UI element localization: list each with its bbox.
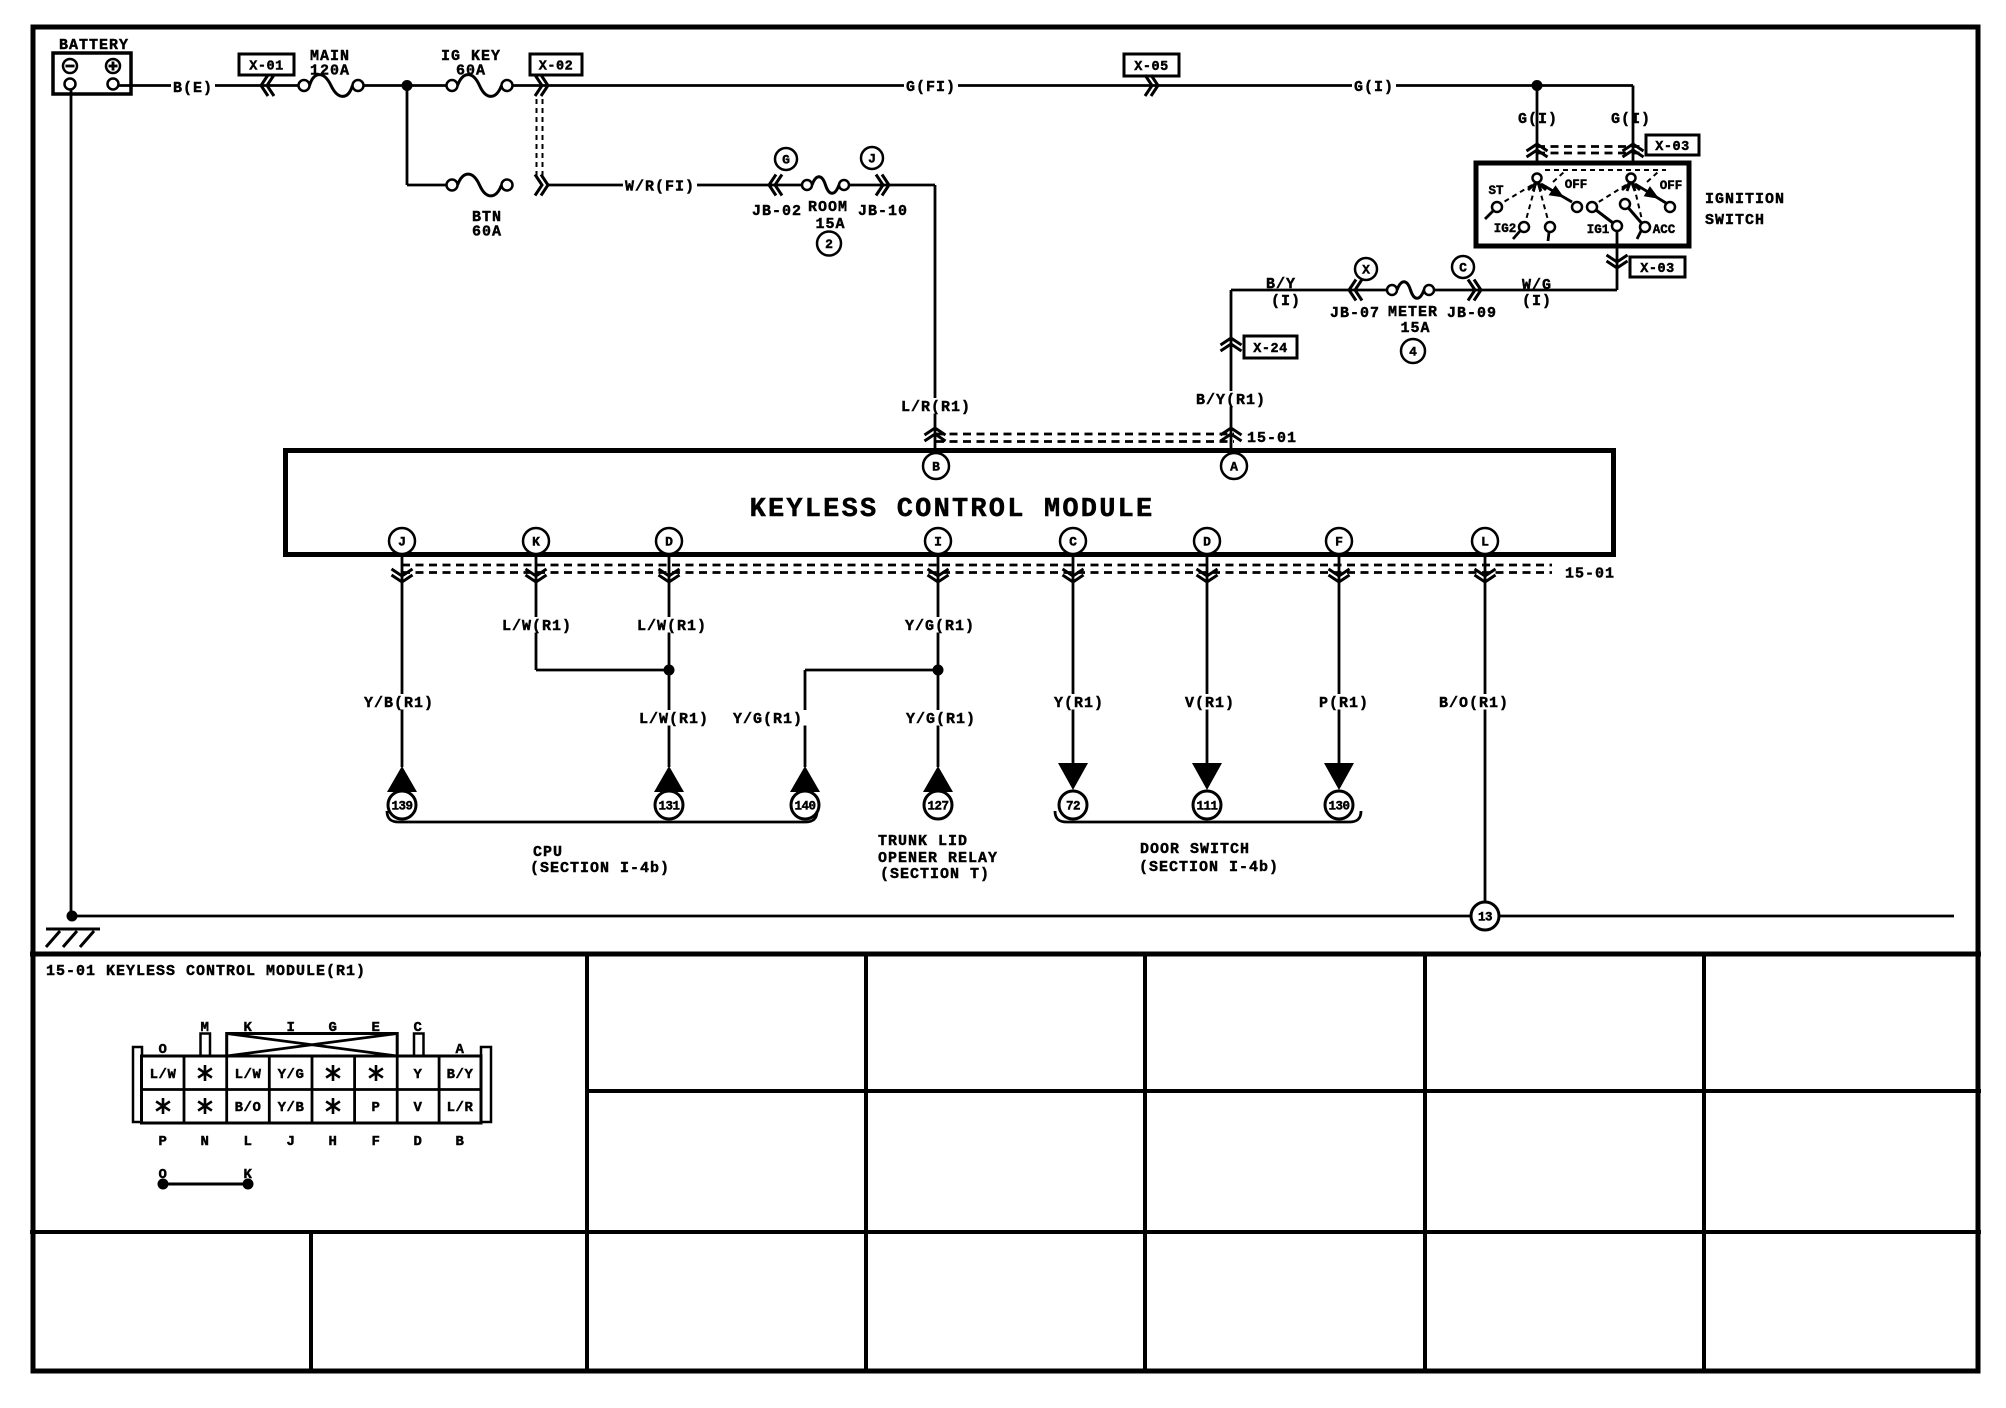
svg-text:130: 130 bbox=[1328, 800, 1349, 814]
svg-text:111: 111 bbox=[1196, 800, 1217, 814]
svg-text:F: F bbox=[1335, 535, 1343, 550]
svg-text:F: F bbox=[372, 1134, 381, 1150]
svg-text:X-03: X-03 bbox=[1640, 262, 1674, 277]
connector 15-01 bottom bus bbox=[392, 565, 1616, 583]
connector X-03 lower bbox=[1607, 255, 1686, 277]
svg-text:B/O(R1): B/O(R1) bbox=[1439, 695, 1509, 712]
wire pin D L/W(R1) bbox=[668, 556, 671, 767]
connector 15-01 top bus bbox=[925, 428, 1298, 447]
svg-text:I: I bbox=[934, 535, 942, 550]
connector X-05 bbox=[1124, 54, 1179, 96]
pin wire colours row 2 bbox=[156, 1098, 170, 1114]
ground bus wire bbox=[72, 915, 1954, 918]
svg-text:D: D bbox=[665, 535, 673, 550]
svg-text:L: L bbox=[1481, 535, 1489, 550]
svg-text:C: C bbox=[414, 1020, 423, 1036]
svg-text:X: X bbox=[1362, 263, 1370, 278]
svg-text:(SECTION I-4b): (SECTION I-4b) bbox=[1139, 859, 1279, 876]
node junction K/D bbox=[664, 665, 675, 676]
wire pin D V(R1) bbox=[1206, 556, 1209, 763]
svg-text:TRUNK LID: TRUNK LID bbox=[878, 833, 968, 850]
svg-text:15-01: 15-01 bbox=[1565, 566, 1615, 583]
svg-text:Y/G(R1): Y/G(R1) bbox=[733, 711, 803, 728]
wire G(I) label bbox=[1352, 78, 1396, 93]
CPU group bracket bbox=[387, 811, 817, 822]
svg-text:(I): (I) bbox=[1522, 293, 1552, 310]
svg-text:G(FI): G(FI) bbox=[906, 79, 956, 96]
svg-text:B/O: B/O bbox=[235, 1100, 262, 1116]
fuse IG KEY 60A bbox=[441, 48, 513, 96]
module bottom pins J K D I C D F L bbox=[389, 528, 1498, 554]
wire W/R(FI) bbox=[548, 184, 807, 187]
svg-text:140: 140 bbox=[794, 800, 815, 814]
svg-text:CPU: CPU bbox=[533, 844, 563, 861]
svg-text:J: J bbox=[398, 535, 406, 550]
svg-text:METER: METER bbox=[1388, 304, 1438, 321]
node ground junction bbox=[67, 911, 78, 922]
connector X-01 bbox=[239, 54, 294, 96]
svg-text:B/Y: B/Y bbox=[447, 1067, 474, 1083]
svg-text:IG2: IG2 bbox=[1494, 222, 1517, 236]
fuse BTN 60A bbox=[447, 174, 549, 240]
svg-text:JB-07: JB-07 bbox=[1330, 305, 1380, 322]
ignition switch bbox=[1476, 163, 1785, 246]
connector X-03 upper bbox=[1527, 135, 1700, 157]
svg-text:K: K bbox=[532, 535, 540, 550]
connector 15-01 pinout body bbox=[133, 1034, 491, 1124]
svg-text:(SECTION T): (SECTION T) bbox=[880, 866, 990, 883]
svg-text:IGNITION: IGNITION bbox=[1705, 191, 1785, 208]
svg-text:Y(R1): Y(R1) bbox=[1054, 695, 1104, 712]
fuse MAIN 120A bbox=[299, 48, 364, 96]
door switch group bracket bbox=[1055, 811, 1361, 822]
svg-text:L/W: L/W bbox=[235, 1067, 262, 1083]
svg-text:P: P bbox=[159, 1134, 168, 1150]
svg-text:OFF: OFF bbox=[1660, 179, 1683, 193]
svg-text:L/R: L/R bbox=[447, 1100, 474, 1116]
terminal arrow 130 bbox=[1324, 763, 1354, 790]
battery bbox=[53, 37, 131, 94]
svg-text:Y/G(R1): Y/G(R1) bbox=[905, 618, 975, 635]
module pin B bbox=[923, 453, 949, 479]
svg-text:L: L bbox=[244, 1134, 253, 1150]
svg-text:Y/B(R1): Y/B(R1) bbox=[364, 695, 434, 712]
svg-text:72: 72 bbox=[1066, 800, 1080, 814]
module pin A bbox=[1221, 453, 1247, 479]
ground bbox=[46, 929, 100, 947]
terminal arrow 127 bbox=[923, 766, 953, 792]
svg-text:N: N bbox=[201, 1134, 210, 1150]
svg-text:(I): (I) bbox=[1271, 293, 1301, 310]
node junction G(I) split bbox=[1532, 80, 1543, 91]
svg-text:K: K bbox=[244, 1020, 253, 1036]
connector X-02 bbox=[530, 54, 582, 178]
wire pin F P(R1) bbox=[1338, 556, 1341, 763]
svg-text:B: B bbox=[456, 1134, 465, 1150]
svg-text:IG1: IG1 bbox=[1587, 223, 1610, 237]
svg-text:X-01: X-01 bbox=[249, 60, 283, 75]
wire B(E) main feed bbox=[118, 84, 304, 87]
wire BTN branch bbox=[406, 86, 409, 186]
svg-text:60A: 60A bbox=[472, 224, 502, 241]
keyless control module bbox=[286, 451, 1614, 555]
svg-text:L/W: L/W bbox=[150, 1067, 177, 1083]
terminal arrow 139 bbox=[387, 766, 417, 792]
svg-text:X-24: X-24 bbox=[1253, 342, 1287, 357]
svg-text:X-03: X-03 bbox=[1655, 140, 1689, 155]
battery negative wire bbox=[70, 89, 73, 916]
svg-text:D: D bbox=[414, 1134, 423, 1150]
node junction I branch bbox=[933, 665, 944, 676]
fuse ROOM 15A with connectors G / J bbox=[752, 147, 908, 256]
wire pin K L/W(R1) bbox=[535, 556, 538, 670]
svg-text:L/W(R1): L/W(R1) bbox=[637, 618, 707, 635]
svg-text:G(I): G(I) bbox=[1354, 79, 1394, 96]
wire pin L B/O(R1) bbox=[1484, 556, 1487, 902]
terminal arrow 72 bbox=[1058, 763, 1088, 790]
wire pin C Y(R1) bbox=[1072, 556, 1075, 763]
svg-text:G(I): G(I) bbox=[1611, 111, 1651, 128]
right rotor bbox=[1622, 182, 1631, 190]
left rotor bbox=[1528, 182, 1537, 190]
svg-text:C: C bbox=[1459, 261, 1467, 276]
svg-text:139: 139 bbox=[391, 800, 412, 814]
wire G(FI) label bbox=[904, 78, 958, 93]
svg-text:L/R(R1): L/R(R1) bbox=[901, 399, 971, 416]
svg-text:Y/G: Y/G bbox=[278, 1067, 305, 1083]
wire B/Y(R1) label bbox=[1194, 391, 1268, 407]
svg-text:Y/G(R1): Y/G(R1) bbox=[906, 711, 976, 728]
svg-text:W/R(FI): W/R(FI) bbox=[625, 179, 695, 196]
svg-text:OFF: OFF bbox=[1565, 178, 1588, 192]
svg-text:V(R1): V(R1) bbox=[1185, 695, 1235, 712]
svg-text:I: I bbox=[287, 1020, 296, 1036]
svg-text:B/Y: B/Y bbox=[1266, 276, 1296, 293]
wire trunk branch Y/G(R1) bbox=[805, 669, 938, 672]
svg-text:G(I): G(I) bbox=[1518, 111, 1558, 128]
svg-text:JB-09: JB-09 bbox=[1447, 305, 1497, 322]
svg-text:KEYLESS CONTROL MODULE: KEYLESS CONTROL MODULE bbox=[750, 495, 1155, 525]
svg-text:131: 131 bbox=[658, 800, 679, 814]
fuse METER 15A with connectors X / C bbox=[1330, 256, 1497, 363]
svg-text:SWITCH: SWITCH bbox=[1705, 212, 1765, 229]
svg-text:OPENER RELAY: OPENER RELAY bbox=[878, 850, 998, 867]
svg-text:G: G bbox=[329, 1020, 338, 1036]
svg-text:V: V bbox=[414, 1100, 423, 1116]
svg-text:A: A bbox=[456, 1042, 465, 1058]
svg-text:DOOR SWITCH: DOOR SWITCH bbox=[1140, 841, 1250, 858]
svg-text:15-01 KEYLESS CONTROL MODULE(R: 15-01 KEYLESS CONTROL MODULE(R1) bbox=[46, 963, 366, 980]
svg-text:13: 13 bbox=[1478, 911, 1492, 925]
svg-text:D: D bbox=[1203, 535, 1211, 550]
svg-text:60A: 60A bbox=[456, 63, 486, 80]
svg-text:X-05: X-05 bbox=[1134, 60, 1168, 75]
terminal arrow 131 bbox=[654, 766, 684, 792]
terminal arrow 140 bbox=[790, 766, 820, 792]
svg-text:2: 2 bbox=[825, 237, 833, 252]
svg-text:(SECTION I-4b): (SECTION I-4b) bbox=[530, 860, 670, 877]
wire G(I) into ignition switch bbox=[1632, 86, 1635, 175]
svg-text:15-01: 15-01 bbox=[1247, 430, 1297, 447]
svg-text:JB-02: JB-02 bbox=[752, 203, 802, 220]
svg-text:ROOM: ROOM bbox=[808, 199, 848, 216]
wire L/R(R1) down to module pin B bbox=[934, 185, 937, 450]
wire IG1 out bbox=[1616, 231, 1619, 290]
svg-text:B/Y(R1): B/Y(R1) bbox=[1196, 392, 1266, 409]
svg-text:15A: 15A bbox=[1400, 320, 1430, 337]
svg-text:B: B bbox=[932, 460, 940, 475]
svg-text:P: P bbox=[372, 1100, 381, 1116]
node junction battery feed bbox=[402, 80, 413, 91]
jumper link O-K bbox=[158, 1167, 254, 1190]
wire W/G(I) bbox=[1429, 289, 1617, 292]
svg-text:P(R1): P(R1) bbox=[1319, 695, 1369, 712]
svg-text:W/G: W/G bbox=[1522, 277, 1552, 294]
svg-text:L/W(R1): L/W(R1) bbox=[502, 618, 572, 635]
svg-text:127: 127 bbox=[927, 800, 948, 814]
svg-text:B(E): B(E) bbox=[173, 80, 213, 97]
svg-text:E: E bbox=[372, 1020, 381, 1036]
terminal arrow 111 bbox=[1192, 763, 1222, 790]
connector X-24 bbox=[1221, 336, 1298, 358]
svg-text:A: A bbox=[1230, 460, 1238, 475]
svg-text:4: 4 bbox=[1409, 345, 1417, 360]
svg-text:J: J bbox=[868, 152, 876, 167]
svg-text:J: J bbox=[287, 1134, 296, 1150]
svg-text:H: H bbox=[329, 1134, 338, 1150]
svg-text:G: G bbox=[782, 153, 790, 168]
wire pin J Y/B(R1) bbox=[401, 556, 404, 767]
wire pin I Y/G(R1) bbox=[937, 556, 940, 767]
label B(E) bbox=[171, 78, 215, 93]
svg-text:L/W(R1): L/W(R1) bbox=[639, 711, 709, 728]
svg-text:Y: Y bbox=[414, 1067, 423, 1083]
svg-text:O: O bbox=[159, 1042, 168, 1058]
svg-text:C: C bbox=[1069, 535, 1077, 550]
svg-text:X-02: X-02 bbox=[539, 60, 573, 75]
svg-text:ST: ST bbox=[1488, 184, 1504, 198]
svg-text:Y/B: Y/B bbox=[278, 1100, 305, 1116]
svg-text:M: M bbox=[201, 1020, 210, 1036]
svg-text:JB-10: JB-10 bbox=[858, 203, 908, 220]
terminal 13 bbox=[1471, 902, 1499, 930]
svg-text:ACC: ACC bbox=[1653, 223, 1676, 237]
